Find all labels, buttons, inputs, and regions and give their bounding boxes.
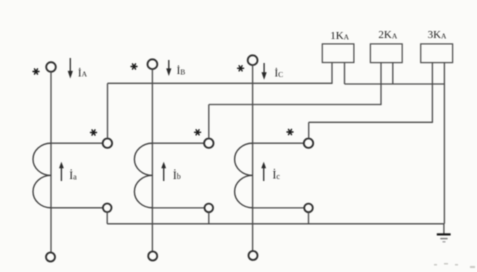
svg-text:İC: İC bbox=[275, 68, 284, 80]
label Ia bbox=[69, 168, 77, 182]
polarity mark CT-C secondary bbox=[287, 129, 293, 134]
svg-text:İB: İB bbox=[177, 65, 186, 77]
terminal CT-A secondary bottom bbox=[103, 204, 112, 213]
terminal phase A bottom bbox=[46, 253, 55, 262]
watermark specks bottom right bbox=[434, 263, 475, 268]
polarity mark phase A primary bbox=[33, 69, 39, 74]
terminal B (phase B top) bbox=[148, 59, 158, 69]
wire phase B primary conductor bbox=[151, 69, 153, 251]
wire 1KA right lead bbox=[344, 63, 346, 85]
terminal CT-B secondary bottom bbox=[205, 204, 214, 213]
wire horizontal CT-B to 2KA left lead bbox=[209, 104, 381, 106]
terminal C (phase C top) bbox=[248, 55, 258, 65]
terminal A (phase A top) bbox=[46, 62, 56, 72]
polarity mark CT-A secondary bbox=[91, 130, 97, 135]
terminal CT-C secondary top bbox=[304, 139, 313, 148]
current arrow IB bbox=[166, 60, 171, 76]
ammeter 3KA bbox=[421, 44, 453, 63]
svg-text:İA: İA bbox=[78, 67, 88, 79]
wire 3KA right lead down to ground junction bbox=[443, 63, 445, 224]
wire common bottom return bbox=[107, 223, 444, 225]
wire CT-B secondary top lead bbox=[152, 142, 204, 144]
wire CT-B secondary bottom stub bbox=[208, 212, 210, 224]
ammeter 1KA bbox=[322, 44, 354, 63]
label 2KA bbox=[378, 29, 397, 41]
svg-text:2KA: 2KA bbox=[378, 29, 397, 41]
wire common return from 1KA right to 3KA right bbox=[345, 83, 445, 85]
wire CT-A secondary bottom stub bbox=[106, 212, 108, 224]
current arrow Ib secondary bbox=[161, 162, 166, 181]
svg-text:3KA: 3KA bbox=[428, 29, 447, 41]
wire 3KA left lead bbox=[431, 63, 433, 123]
wire horizontal CT-C to 3KA left lead bbox=[309, 121, 433, 123]
CT TAc secondary winding bbox=[235, 143, 253, 208]
CT TAb secondary winding bbox=[134, 143, 152, 208]
terminal phase C bottom bbox=[249, 251, 258, 260]
wire phase A primary conductor bbox=[50, 72, 52, 253]
polarity mark CT-B secondary bbox=[195, 130, 201, 135]
wire CT-A secondary bottom lead bbox=[51, 207, 103, 209]
terminal CT-C secondary bottom bbox=[304, 204, 313, 213]
label IC bbox=[275, 68, 284, 80]
current arrow Ic secondary bbox=[261, 162, 266, 181]
wire 1KA left lead bbox=[331, 63, 333, 84]
CT TAa secondary winding bbox=[33, 143, 51, 208]
terminal CT-A secondary top bbox=[103, 139, 112, 148]
svg-text:1KA: 1KA bbox=[330, 30, 349, 42]
wire CT-C secondary top lead bbox=[253, 142, 304, 144]
ammeter 2KA bbox=[370, 44, 402, 63]
wire horizontal CT-A to 1KA left lead bbox=[108, 82, 333, 84]
terminal CT-B secondary top bbox=[204, 139, 213, 148]
label Ib bbox=[173, 168, 181, 182]
wire CT-C secondary bottom stub bbox=[308, 212, 310, 224]
wire CT-C secondary bottom lead bbox=[253, 207, 305, 209]
wire 2KA right lead bbox=[392, 63, 394, 84]
wire 2KA left lead bbox=[380, 63, 382, 106]
label 3KA bbox=[428, 29, 447, 41]
wire riser CT-B to 2KA bbox=[208, 105, 210, 139]
wire CT-B secondary bottom lead bbox=[152, 207, 204, 209]
current arrow IA bbox=[68, 58, 73, 79]
wire phase C primary conductor bbox=[252, 65, 254, 251]
wire CT-A secondary top lead bbox=[51, 142, 103, 144]
label IA bbox=[78, 67, 88, 79]
label Ic bbox=[273, 168, 281, 182]
current arrow IC bbox=[262, 63, 267, 80]
wire riser CT-A to 1KA bbox=[107, 83, 109, 138]
label IB bbox=[177, 65, 186, 77]
current arrow Ia secondary bbox=[59, 162, 64, 181]
polarity mark phase C primary bbox=[238, 66, 244, 71]
wire riser CT-C to 3KA bbox=[308, 122, 310, 138]
label 1KA bbox=[330, 30, 349, 42]
terminal phase B bottom bbox=[148, 252, 157, 261]
polarity mark phase B primary bbox=[131, 64, 137, 69]
ground bbox=[437, 224, 451, 242]
